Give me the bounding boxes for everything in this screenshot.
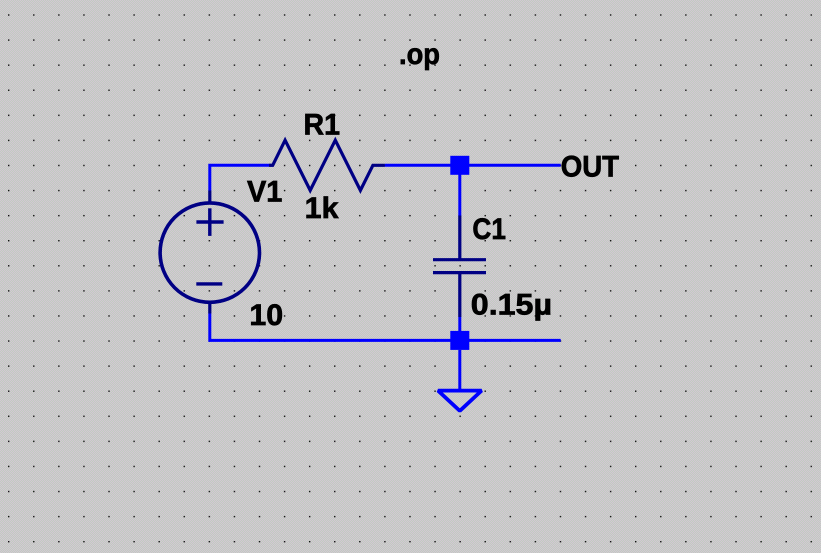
junction ground node — [450, 331, 469, 350]
svg-text:C1: C1 — [472, 213, 506, 246]
wire from V1 minus pin down and right to ground junction — [210, 314, 460, 341]
svg-text:V1: V1 — [247, 176, 282, 209]
svg-text:0.15µ: 0.15µ — [471, 288, 552, 321]
wire from V1 plus pin up and right to R1 left lead — [210, 165, 273, 190]
svg-text:OUT: OUT — [561, 150, 619, 183]
wire from node OUT junction down to C1 — [458, 165, 461, 216]
wire from R1 right lead to node OUT junction — [385, 164, 460, 167]
svg-text:1k: 1k — [305, 192, 339, 225]
wire from node OUT junction to OUT label — [460, 164, 561, 167]
ground — [438, 350, 482, 411]
wire from C1 bottom to ground junction — [458, 317, 461, 340]
svg-text:10: 10 — [249, 299, 283, 332]
svg-text:R1: R1 — [304, 109, 341, 142]
wire ground rail right stub — [460, 339, 561, 342]
junction node OUT — [450, 156, 469, 175]
resistor R1 — [269, 140, 385, 190]
voltage source V1 — [160, 191, 259, 314]
svg-text:.op: .op — [399, 38, 440, 71]
capacitor C1 — [433, 216, 486, 318]
